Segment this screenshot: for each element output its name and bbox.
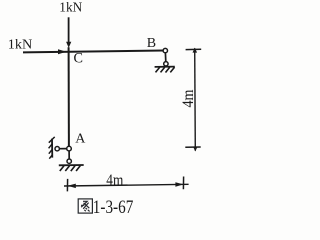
support A wall pin circle <box>55 147 59 151</box>
dimension bottom 4m line <box>64 184 189 186</box>
support A ground line <box>59 164 84 166</box>
dimension bottom 4m left tick <box>66 179 68 192</box>
force F2 1kN horizontal arrowhead <box>58 49 66 54</box>
force F1 1kN vertical arrowhead <box>66 42 71 48</box>
support A lower pin circle <box>67 159 71 163</box>
svg-text:C: C <box>74 51 83 67</box>
dimension bottom 4m right arrowhead <box>175 182 183 187</box>
dimension right 4m top arrowhead <box>193 48 198 53</box>
member force-line plus beam CB <box>23 51 163 53</box>
svg-text:4m: 4m <box>180 90 197 108</box>
caption glyph tu (figure) <box>78 199 92 213</box>
member column CA <box>68 47 70 146</box>
svg-text:A: A <box>75 132 86 147</box>
support A wall line <box>51 139 53 158</box>
dimension right 4m top extension bar <box>186 48 202 50</box>
svg-text:1kN: 1kN <box>8 37 33 52</box>
svg-text:1kN: 1kN <box>59 1 82 16</box>
dimension right 4m line <box>194 48 197 150</box>
force F1 1kN vertical arrow shaft <box>68 17 70 43</box>
support A wall hatching <box>49 137 55 159</box>
dimension bottom 4m left arrowhead <box>68 184 76 189</box>
support A vertical link bar <box>68 151 70 159</box>
support B hinge pin circle <box>163 48 167 52</box>
support B ground line <box>155 66 175 68</box>
dimension right 4m bottom arrowhead <box>193 147 198 152</box>
support B link bar <box>164 53 166 62</box>
dimension bottom 4m right tick <box>182 177 184 190</box>
support A ground hatching <box>60 166 81 172</box>
support B lower pin circle <box>164 62 168 66</box>
svg-text:B: B <box>147 36 156 51</box>
support A horizontal link bar <box>59 148 66 150</box>
svg-text:1-3-67: 1-3-67 <box>93 197 134 218</box>
dimension right 4m bottom extension bar <box>185 146 200 148</box>
support B ground hatching <box>156 67 175 72</box>
svg-text:4m: 4m <box>106 172 123 189</box>
support A hinge pin circle at node <box>67 146 72 151</box>
